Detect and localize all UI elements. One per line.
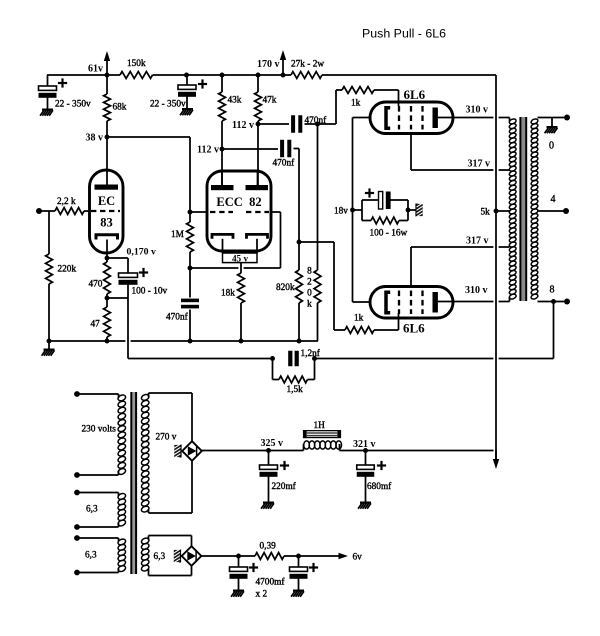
wire: feedback from 8 terminal <box>553 302 555 359</box>
wire: C5 to ground rail <box>189 310 191 342</box>
capacitor C1 22-350v (electrolytic to ground) <box>47 75 49 86</box>
svg-text:1k: 1k <box>354 314 364 324</box>
resistor 18k (common cathode) <box>240 263 242 273</box>
svg-text:325 v: 325 v <box>261 438 284 449</box>
svg-text:x 2: x 2 <box>256 590 268 600</box>
wire: 6,3 secondary to rectifier <box>148 536 150 541</box>
svg-text:6,3: 6,3 <box>154 552 166 562</box>
svg-text:43k: 43k <box>228 96 242 106</box>
node EC83 cathode / 0,170v <box>105 256 110 261</box>
svg-text:1M: 1M <box>171 230 184 240</box>
ground symbol at rail left <box>48 341 50 349</box>
wire: feedback line to EC83 cathode network <box>128 358 273 360</box>
svg-text:68k: 68k <box>113 103 127 113</box>
node 18v bias <box>350 208 355 213</box>
capacitor 100-10v (cathode bypass) <box>119 273 138 277</box>
plus of 4700mf #1 <box>249 566 258 568</box>
svg-text:112 v: 112 v <box>197 145 219 156</box>
wire: bypass cap bottom / feedback junction <box>127 284 129 298</box>
capacitor C2 22-350v (electrolytic to ground) <box>186 75 188 85</box>
resistor 100-16w <box>362 220 371 222</box>
EC83 cathode lead <box>106 240 108 259</box>
wire: 6v rail from rectifier <box>201 555 255 557</box>
svg-text:6L6: 6L6 <box>404 87 426 102</box>
wire: bias node to RC network <box>353 209 363 211</box>
ECC82 cathode a <box>212 234 233 238</box>
wire: secondary tap 4 <box>538 210 567 212</box>
wire: 220k to ground rail <box>48 284 50 341</box>
wire: bottom 6L6 anode to transformer 310v <box>438 301 494 303</box>
ground below 4700mf #2 <box>298 578 300 590</box>
svg-text:100 - 16w: 100 - 16w <box>370 229 408 239</box>
wire: EC83 anode to ECC82 grid a (direct coupling) <box>107 136 190 138</box>
arrow to 6v <box>299 555 343 557</box>
wire: common cathode line of both 6L6 <box>352 118 354 303</box>
svg-text:0: 0 <box>549 141 554 152</box>
6L6 bottom grid 3 (dashed) <box>421 291 423 315</box>
EC83 anode lead from 38v node <box>106 137 108 185</box>
svg-text:2: 2 <box>307 278 312 288</box>
resistor 470 (cathode) <box>104 262 111 294</box>
resistor 43k <box>221 75 223 92</box>
svg-text:k: k <box>307 300 312 310</box>
node 1M bottom <box>188 266 193 271</box>
svg-text:47: 47 <box>91 320 101 330</box>
wire: 270v secondary to rectifier <box>148 393 150 397</box>
heater terminal 3 <box>74 535 80 541</box>
svg-text:1,5k: 1,5k <box>287 385 304 395</box>
plus of bias capacitor <box>365 192 374 194</box>
resistor 68k <box>106 75 108 94</box>
arrow: supply feed at 61v node <box>106 57 108 75</box>
wire: secondary top to terminal 0 <box>538 117 568 119</box>
plus of 220mf <box>280 464 289 466</box>
svg-text:83: 83 <box>100 216 113 230</box>
svg-text:8: 8 <box>550 285 555 296</box>
power transformer primary 230 volts coil <box>117 394 126 402</box>
svg-text:170 v: 170 v <box>257 59 280 70</box>
wire: 1k to top 6L6 grid <box>374 89 399 91</box>
wire: 325v rail <box>202 450 304 452</box>
heater terminal 2 <box>74 524 80 530</box>
mains terminal 2 <box>74 472 80 478</box>
wire: C3 to 1k grid stopper <box>305 123 337 125</box>
resistor 2,2k <box>55 208 84 215</box>
wire: input to grid resistor <box>39 210 55 212</box>
svg-text:2,2 k: 2,2 k <box>57 197 76 207</box>
power transformer 6,3 winding-2 coil (left) <box>117 538 126 546</box>
resistor 0,39 <box>255 553 284 560</box>
svg-text:470nf: 470nf <box>166 312 189 323</box>
svg-text:230 volts: 230 volts <box>82 425 117 435</box>
svg-text:47k: 47k <box>263 96 277 106</box>
power transformer 6,3 winding-1 coil (left) <box>117 492 126 500</box>
6L6 top grid 1 (dashed) <box>398 106 400 130</box>
capacitor 4700mf #1 <box>238 556 240 567</box>
svg-text:1k: 1k <box>351 99 361 109</box>
svg-text:470nf: 470nf <box>273 158 296 169</box>
arrow: B+ from 321v supply <box>495 450 497 463</box>
capacitor C3 470nf (top coupling) <box>291 115 295 133</box>
ground at 270v rectifier <box>179 445 181 458</box>
output transformer primary bottom lead <box>509 297 511 302</box>
svg-text:38 v: 38 v <box>86 133 104 144</box>
plus of 100-10v cap <box>139 271 148 273</box>
capacitor C4 470nf (bottom coupling) <box>280 140 284 158</box>
input terminal <box>36 208 42 214</box>
wire: 321v rail to B+ line <box>340 450 494 452</box>
wire: 2,2k to EC83 grid <box>84 210 90 212</box>
tube ECC82 envelope <box>207 171 271 251</box>
output transformer primary top lead <box>509 118 511 122</box>
plus of C1 <box>58 82 67 84</box>
node: output transformer centre tap junction <box>494 209 499 214</box>
node 112v (47k bottom) <box>256 122 261 127</box>
resistor 1k (bottom 6L6 grid) <box>345 327 374 334</box>
resistor 1,5k (feedback, parallel) <box>272 359 274 380</box>
capacitor 680mf <box>365 451 367 466</box>
svg-text:470: 470 <box>89 280 103 290</box>
45v cathode box <box>222 239 224 253</box>
output transformer core <box>520 117 526 301</box>
rectifier bridge 6,3 (diamond) <box>182 546 202 566</box>
svg-text:8: 8 <box>307 267 312 277</box>
svg-text:22 - 350v: 22 - 350v <box>55 100 91 110</box>
ground below 4700mf #1 <box>238 578 240 590</box>
ground at 6,3 rectifier <box>179 550 181 563</box>
svg-text:0,170 v: 0,170 v <box>127 247 156 258</box>
capacitor 1,2nf (feedback) <box>288 351 292 367</box>
ground at bias network <box>415 204 417 217</box>
heater terminal 4 <box>74 570 80 576</box>
wire: lower grid network to 1k <box>299 241 334 243</box>
svg-text:6,3: 6,3 <box>86 505 98 515</box>
wire: cathode to bypass cap <box>107 257 128 259</box>
node: lower grid network junction <box>297 240 302 245</box>
resistor 27k - 2w <box>291 72 322 79</box>
svg-text:22 - 350v: 22 - 350v <box>150 100 186 110</box>
power transformer core <box>131 392 136 574</box>
svg-text:1,2nf: 1,2nf <box>301 348 321 359</box>
capacitor 4700mf #2 <box>298 556 300 567</box>
wire: 6,3 winding-1 leads <box>77 492 119 494</box>
6L6 top cathode <box>386 108 390 128</box>
resistor 47k <box>257 75 259 92</box>
ground below C2 <box>186 97 188 109</box>
svg-text:820k: 820k <box>276 283 295 293</box>
svg-text:0: 0 <box>307 289 312 299</box>
svg-text:6,3: 6,3 <box>85 551 97 561</box>
svg-text:45 v: 45 v <box>232 253 248 263</box>
inductor 1H winding <box>303 444 305 451</box>
wire: B+ vertical line right side down to supply arrow <box>495 75 497 462</box>
plus of 680mf <box>377 464 386 466</box>
svg-text:150k: 150k <box>127 59 146 69</box>
resistor 220k <box>46 254 53 284</box>
svg-text:5k: 5k <box>481 208 491 218</box>
svg-text:321 v: 321 v <box>353 439 376 450</box>
wire: top 6L6 screen to 317v tap <box>410 134 412 170</box>
wire: 0,39 to 6v arrow <box>284 555 299 557</box>
wire: secondary bottom terminal 8 <box>538 301 568 303</box>
inductor 1H choke core <box>304 431 341 438</box>
resistor 47 <box>104 307 111 337</box>
svg-text:Push Pull - 6L6: Push Pull - 6L6 <box>362 27 446 41</box>
6L6 bottom grid 1 (dashed) <box>398 291 400 315</box>
ECC82 anode plate b <box>246 185 269 190</box>
svg-text:112 v: 112 v <box>232 120 254 131</box>
svg-text:18v: 18v <box>334 207 348 217</box>
wire: input shunt branch down <box>48 211 50 254</box>
resistor 1k (top 6L6 grid) <box>342 87 374 94</box>
6L6 bottom grid 2 (dashed) <box>410 291 412 315</box>
ECC82 grid a (dashed) <box>210 211 233 213</box>
resistor 1M <box>187 222 194 252</box>
6L6 top grid 2 (dashed) <box>410 106 412 130</box>
output transformer secondary coil <box>530 118 538 125</box>
resistor 820k (lower 6L6 grid leak) <box>296 270 303 303</box>
6L6 bottom anode plate <box>433 292 438 313</box>
svg-text:EC: EC <box>98 194 115 208</box>
wire 112v to coupling cap C3 <box>258 123 289 125</box>
EC83 cathode <box>96 235 118 240</box>
arrow: supply feed at 170v node <box>282 56 284 75</box>
ground at secondary 0 terminal <box>551 118 553 127</box>
ground below C1 <box>47 98 49 109</box>
node 38v <box>105 135 110 140</box>
node grid a <box>188 210 193 215</box>
wire: bottom 6L6 cathode lead <box>353 301 371 303</box>
wire: ECC82 grid b to 1M bottom <box>271 211 281 213</box>
svg-text:18k: 18k <box>221 289 235 299</box>
svg-text:27k - 2w: 27k - 2w <box>291 60 324 70</box>
capacitor bias 100-16w network (electrolytic) <box>362 199 379 201</box>
mains terminal 1 <box>74 391 80 397</box>
wire: 1k to bottom 6L6 grid <box>374 329 399 331</box>
svg-text:220mf: 220mf <box>272 481 297 492</box>
tube 6L6 bottom envelope <box>370 287 453 319</box>
plus of C2 <box>198 83 207 85</box>
EC83 grid (dashed) <box>91 210 120 212</box>
capacitor 220mf <box>268 451 270 466</box>
tube EC83 envelope <box>90 170 124 253</box>
6L6 bottom cathode <box>386 292 390 312</box>
wire: bottom 6L6 screen to 317v tap <box>410 247 412 286</box>
ground below 220mf <box>268 476 270 502</box>
svg-text:310 v: 310 v <box>465 285 488 296</box>
node 112v (43k bottom) <box>220 147 225 152</box>
plus of 4700mf #2 <box>309 566 318 568</box>
ECC82 grid b (dashed) <box>246 211 269 213</box>
wire 112v to coupling cap C4 <box>222 148 278 150</box>
svg-text:317 v: 317 v <box>468 159 491 170</box>
wire: C4 to 820k node <box>294 148 300 150</box>
ground rail (y=341) <box>49 340 125 342</box>
power transformer 6,3 secondary coil (right) <box>141 537 150 545</box>
svg-text:6L6: 6L6 <box>403 321 425 336</box>
svg-text:270 v: 270 v <box>156 433 177 443</box>
wire: 6,3 winding-2 leads <box>77 537 119 539</box>
wire: B+ top rail 61v/170v (y=75) <box>47 74 120 76</box>
svg-text:61v: 61v <box>88 64 103 75</box>
svg-text:1H: 1H <box>314 421 326 431</box>
wire: top 6L6 cathode lead <box>353 117 371 119</box>
EC83 anode plate <box>95 185 119 190</box>
wire: top 6L6 anode to transformer 310v <box>438 117 494 119</box>
wire: mains leads 230v <box>77 393 119 395</box>
wire: anode2 ECC82 to 43k <box>221 149 223 185</box>
svg-text:4700mf: 4700mf <box>256 577 286 588</box>
resistor 150k <box>120 72 153 79</box>
svg-text:4: 4 <box>551 194 556 205</box>
heater terminal 1 <box>74 490 80 496</box>
resistor 820k vertical-label (upper 6L6 grid leak) <box>317 124 319 270</box>
svg-text:6v: 6v <box>353 553 363 563</box>
capacitor C5 470nf (grid b decoupling) <box>189 268 191 298</box>
svg-text:680mf: 680mf <box>367 481 392 492</box>
ECC82 anode plate a <box>211 185 234 190</box>
tube 6L6 top envelope <box>370 102 453 134</box>
ECC82 cathode b <box>247 234 268 238</box>
wire: centre tap 5k <box>496 210 510 212</box>
svg-text:317 v: 317 v <box>466 236 489 247</box>
6L6 top grid 3 (dashed) <box>421 106 423 130</box>
svg-text:ECC 82: ECC 82 <box>216 195 261 209</box>
svg-text:310 v: 310 v <box>466 105 489 116</box>
rectifier bridge 270v (diamond) <box>182 441 202 461</box>
node 470/47 junction <box>105 296 110 301</box>
6L6 top anode plate <box>433 108 438 129</box>
svg-text:100 - 10v: 100 - 10v <box>132 287 168 297</box>
wire: anode1 ECC82 to 47k <box>257 124 259 185</box>
svg-text:0,39: 0,39 <box>260 542 277 552</box>
power transformer 270v secondary coil <box>141 393 150 401</box>
ground below 680mf <box>365 476 367 502</box>
output transformer primary coil <box>509 118 517 125</box>
svg-text:220k: 220k <box>58 265 77 275</box>
